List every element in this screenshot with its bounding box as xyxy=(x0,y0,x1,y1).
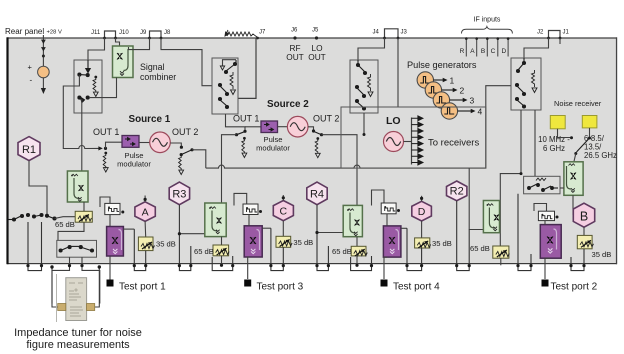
wire box1 source select to OUT1 switch xyxy=(63,75,98,149)
wire src2-right box down to OUT2 line xyxy=(363,113,365,135)
wire purple bypass port3 xyxy=(262,227,271,229)
LO oscillator xyxy=(384,132,404,152)
wire LO to splitter xyxy=(404,141,412,143)
wire J2 into right switch box xyxy=(524,38,549,58)
impedance tuner body xyxy=(57,274,87,322)
wire filter1 to noise switch xyxy=(558,129,571,138)
svg-text:Impedance tuner for noise: Impedance tuner for noise xyxy=(14,327,142,339)
svg-text:Pulse generators: Pulse generators xyxy=(407,60,477,70)
wire src2 OUT1 down to port 3 xyxy=(222,135,237,203)
receiver R2 xyxy=(447,181,467,201)
wire J10 to signal combiner xyxy=(116,38,120,46)
termination stub at source2 box top xyxy=(223,60,237,66)
panel bottom edge xyxy=(7,263,617,264)
svg-text:Test port 2: Test port 2 xyxy=(551,282,598,293)
svg-text:OUT 1: OUT 1 xyxy=(233,114,259,124)
wire src2-left box to OUT1 switch xyxy=(226,114,246,130)
wire coupler3 to 65dB att xyxy=(221,237,223,245)
purple switch block port2 xyxy=(540,225,561,259)
wire supply output arrow xyxy=(42,78,44,89)
IF inputs brace xyxy=(462,27,513,34)
wire test port 1 main line xyxy=(109,215,111,280)
svg-text:R2: R2 xyxy=(450,186,464,198)
svg-text:C: C xyxy=(491,48,496,55)
switch source1 OUT2 xyxy=(180,146,183,149)
jumper J4-J3 xyxy=(385,29,399,38)
attenuator 35dB port3 xyxy=(276,236,292,247)
svg-text:J10: J10 xyxy=(119,30,129,36)
wire modulator2 to oscillator2 xyxy=(278,126,288,128)
pulse modulator source 2 xyxy=(261,121,278,133)
arrowheads on +28V wire xyxy=(41,40,46,52)
wire bus drop to port2 coupler arm xyxy=(469,168,484,229)
switch source1 OUT1 node xyxy=(104,147,107,150)
svg-text:2: 2 xyxy=(460,86,465,96)
jumper J9-J8 xyxy=(150,31,162,38)
attenuator 65dB port1 xyxy=(75,211,92,222)
svg-text:LO: LO xyxy=(386,115,401,127)
power supply source xyxy=(38,66,50,78)
wire 65dB att port4 down xyxy=(356,256,358,265)
svg-text:4: 4 xyxy=(478,107,483,117)
port2 coupler xyxy=(483,201,499,233)
svg-text:+: + xyxy=(28,63,33,72)
resistor termination at OUT1 switch xyxy=(104,152,107,155)
svg-text:A: A xyxy=(142,207,149,219)
resistor termination src2 OUT2 xyxy=(316,137,319,140)
wire OUT1 node to pulse modulator xyxy=(106,142,123,148)
wire port2 switch box down xyxy=(520,110,522,174)
svg-text:26.5 GHz: 26.5 GHz xyxy=(584,151,617,160)
attenuator 65dB port2 xyxy=(493,246,510,258)
resistor termination src2 OUT1 xyxy=(243,137,246,140)
svg-text:IF inputs: IF inputs xyxy=(474,17,501,24)
svg-text:R: R xyxy=(460,48,465,55)
wire R3 to port3 coupler arm xyxy=(179,233,205,235)
svg-text:Signal: Signal xyxy=(140,62,164,72)
svg-text:combiner: combiner xyxy=(140,72,176,82)
receiver R4 xyxy=(307,182,327,205)
svg-text:10 MHz -: 10 MHz - xyxy=(538,135,570,144)
pulse generator 4 xyxy=(441,103,457,119)
node above receiver C xyxy=(282,195,284,201)
node above receiver A xyxy=(144,196,146,202)
front jumper loop port4 xyxy=(372,190,385,206)
wire switch to noise downconverter xyxy=(574,154,576,162)
wire coupler4 to 65dB att xyxy=(356,237,358,247)
pulse generator 2 xyxy=(425,82,441,98)
wire oscillator to OUT2 switch xyxy=(170,143,181,146)
port3 coupler xyxy=(205,203,226,237)
attenuator 35dB port4 xyxy=(415,238,431,248)
svg-text:modulator: modulator xyxy=(117,160,151,169)
svg-text:J7: J7 xyxy=(259,30,266,36)
wire switch row to 65dB attenuator port1 xyxy=(55,217,76,219)
switch contacts box1 xyxy=(78,60,90,102)
wire coupler to 65dB att port1 xyxy=(58,202,84,240)
receiver R1 xyxy=(18,137,40,161)
wire 65dB att port3 down xyxy=(221,256,223,265)
wire C to 35dB att xyxy=(282,221,284,237)
front jumper loop port1 xyxy=(100,197,110,207)
test port 2 connector xyxy=(542,280,549,287)
attenuator 35dB port1 xyxy=(138,237,154,251)
wire D to 35dB att xyxy=(421,221,423,238)
tuner connector right xyxy=(87,304,95,311)
svg-text:J1: J1 xyxy=(563,30,570,36)
noise band switch xyxy=(577,138,590,152)
wire port2 switch box down second leg xyxy=(534,110,536,176)
node above receiver D xyxy=(421,196,423,202)
svg-text:Test port 3: Test port 3 xyxy=(257,282,304,293)
svg-text:D: D xyxy=(418,206,426,218)
receiver gate port3 xyxy=(243,204,262,215)
wire +28V drop xyxy=(42,35,44,67)
wire tuner left loop xyxy=(52,267,58,307)
attenuator 35dB port2 xyxy=(577,235,593,248)
switch box source2-left xyxy=(212,58,238,114)
svg-text:Source 1: Source 1 xyxy=(129,114,171,125)
test port 4 connector xyxy=(381,280,388,287)
resistor in source2-left box xyxy=(230,72,233,89)
svg-text:6 GHz: 6 GHz xyxy=(543,144,565,153)
receiver D xyxy=(412,201,432,221)
pulse modulator source 1 xyxy=(122,136,139,148)
wire A to 35dB attenuator xyxy=(144,221,147,237)
wire filter2 to noise switch xyxy=(589,128,591,137)
bus source1-OUT2 to port 2 with crossovers xyxy=(206,86,511,168)
svg-text:Noise receiver: Noise receiver xyxy=(554,99,602,108)
resistor termination at OUT2 switch xyxy=(179,156,182,170)
LO distribution box xyxy=(341,107,486,168)
junction dots at front panel xyxy=(26,264,585,268)
receiver gate port1 xyxy=(105,203,125,214)
source 2 oscillator xyxy=(287,116,308,137)
wire R1 to port1 coupler arm xyxy=(29,161,47,214)
wire 65dB att port2 down xyxy=(500,258,502,265)
wire tuner right loop xyxy=(95,267,100,307)
svg-text:A: A xyxy=(470,48,475,55)
front jumper loop port2 xyxy=(534,204,547,212)
port1 coupler xyxy=(67,171,88,202)
svg-text:OUT 2: OUT 2 xyxy=(172,127,198,137)
wire purple bypass port4 xyxy=(401,227,407,229)
resistor in src2-right box xyxy=(368,74,371,91)
attenuator 65dB port3 xyxy=(213,245,229,256)
test port 1 connector xyxy=(107,280,114,287)
receiver R3 xyxy=(169,182,189,205)
wires box port1 legs to tuner xyxy=(52,257,70,303)
wire OUT1 to pulse modulator 2 xyxy=(245,126,261,128)
resistor in port2 switch box xyxy=(532,70,535,87)
wire J3 down to LO section xyxy=(397,38,399,107)
svg-text:35 dB: 35 dB xyxy=(156,240,176,249)
switch box port2 (J2/J1) xyxy=(511,58,541,110)
wire box1 down to port1 coupler xyxy=(81,99,83,171)
noise downconverter xyxy=(564,162,583,196)
svg-text:C: C xyxy=(280,206,288,218)
front panel U-loop jumpers xyxy=(28,194,584,271)
svg-text:3: 3 xyxy=(470,96,475,106)
noise receiver band filter 2 xyxy=(582,116,597,128)
LO splitter comb to receivers xyxy=(411,118,413,165)
panel left edge xyxy=(6,37,8,264)
svg-text:-: - xyxy=(30,76,33,85)
port4 coupler xyxy=(343,205,362,236)
svg-text:65 dB: 65 dB xyxy=(194,247,214,256)
svg-text:OUT 2: OUT 2 xyxy=(313,114,339,124)
svg-text:OUT 1: OUT 1 xyxy=(93,127,119,137)
wire to port2 main line xyxy=(500,174,521,246)
switch source2 OUT1 xyxy=(243,130,246,133)
purple switch block port1 xyxy=(107,227,124,257)
svg-text:1: 1 xyxy=(450,76,455,86)
wire noise switch box to downconverter xyxy=(560,187,564,189)
bias switch box port1 xyxy=(57,240,97,257)
attenuator 65dB port4 xyxy=(351,246,367,256)
front jumper loop port3 xyxy=(234,193,247,205)
svg-text:OUT: OUT xyxy=(286,52,304,62)
junction dots at couplers xyxy=(178,232,181,235)
receiver C xyxy=(273,201,293,221)
wire modulator to source1 oscillator xyxy=(139,142,150,144)
svg-text:+28 V: +28 V xyxy=(47,30,62,36)
svg-text:Source 2: Source 2 xyxy=(267,99,309,110)
wire B to 35dB att xyxy=(583,227,585,235)
switch source2 OUT2 xyxy=(308,127,314,130)
wire J11 to switch box 1 xyxy=(88,38,105,60)
receiver gate port2 xyxy=(538,211,558,220)
rear-panel attenuator at J7 xyxy=(227,32,257,37)
svg-text:J11: J11 xyxy=(91,30,101,36)
wire combiner output to switch box 1 xyxy=(89,78,117,98)
svg-text:To receivers: To receivers xyxy=(428,138,479,149)
svg-text:Test port 4: Test port 4 xyxy=(393,282,440,293)
svg-text:35 dB: 35 dB xyxy=(592,250,612,259)
panel right edge xyxy=(616,37,617,264)
purple switch block port3 xyxy=(244,226,262,257)
wire source1 OUT2 to port2 bus xyxy=(192,150,206,168)
wire J1 stub xyxy=(559,38,561,44)
receiver A xyxy=(135,202,155,222)
IF input lines R A B C D xyxy=(466,38,508,57)
svg-text:D: D xyxy=(501,48,506,55)
svg-text:65 dB: 65 dB xyxy=(470,244,490,253)
svg-text:Rear panel: Rear panel xyxy=(5,27,44,36)
wire test port 3 main line xyxy=(248,215,249,280)
svg-text:35 dB: 35 dB xyxy=(432,239,452,248)
wire test port 4 main line xyxy=(384,214,387,279)
wire downconverter to receiver B xyxy=(572,195,574,215)
svg-text:modulator: modulator xyxy=(256,144,290,153)
tuner connector left xyxy=(58,304,66,311)
svg-text:J4: J4 xyxy=(373,30,380,36)
svg-text:J9: J9 xyxy=(140,30,147,36)
pulse generator 1 xyxy=(417,72,433,88)
svg-text:J3: J3 xyxy=(401,30,408,36)
svg-text:OUT: OUT xyxy=(308,52,326,62)
wire J7 to source2 switch box xyxy=(238,38,256,98)
noise receiver band filter 1 xyxy=(550,116,565,129)
wire purple bypass port1 xyxy=(123,228,134,230)
receiver gate port4 xyxy=(381,203,400,214)
svg-text:65 dB: 65 dB xyxy=(332,247,352,256)
jumper J11-J10 xyxy=(105,31,116,38)
test port 3 connector xyxy=(244,280,251,287)
wire J4 to src2-right switch box xyxy=(358,38,385,60)
svg-text:B: B xyxy=(481,48,485,55)
signal combiner U1 xyxy=(113,46,134,78)
source 1 oscillator xyxy=(150,132,171,153)
pulse generator 3 xyxy=(433,92,449,108)
panel top edge xyxy=(7,37,617,38)
switch box source2-right xyxy=(350,60,378,113)
receiver B xyxy=(573,203,594,227)
wire R4 to port4 coupler arm xyxy=(317,232,343,234)
svg-text:R1: R1 xyxy=(22,144,36,156)
noise path switch box xyxy=(524,176,560,194)
svg-text:B: B xyxy=(580,209,588,223)
wire src2 OUT2 down to port 4 xyxy=(322,135,358,206)
svg-text:35 dB: 35 dB xyxy=(293,238,313,247)
svg-text:R4: R4 xyxy=(310,188,324,200)
resistor in switch box 1 xyxy=(94,76,97,79)
switch box 1 (source 1 routing) xyxy=(74,60,102,113)
svg-text:Test port 1: Test port 1 xyxy=(119,282,166,293)
svg-text:J5: J5 xyxy=(312,28,319,34)
reference switch row port1 xyxy=(9,214,57,222)
svg-text:J8: J8 xyxy=(164,30,171,36)
jumper J2-J1 xyxy=(549,31,561,39)
svg-text:R3: R3 xyxy=(172,188,186,200)
wire test port 2 main line xyxy=(545,221,550,279)
analyzer panel body xyxy=(7,38,617,264)
svg-text:figure measurements: figure measurements xyxy=(26,339,130,351)
svg-text:65 dB: 65 dB xyxy=(55,220,75,229)
svg-text:J2: J2 xyxy=(537,30,544,36)
wire J9 to combiner second input xyxy=(129,38,150,50)
wire J8 to source2 switch box xyxy=(161,38,212,86)
purple switch block port4 xyxy=(383,226,401,257)
svg-text:J6: J6 xyxy=(291,28,298,34)
